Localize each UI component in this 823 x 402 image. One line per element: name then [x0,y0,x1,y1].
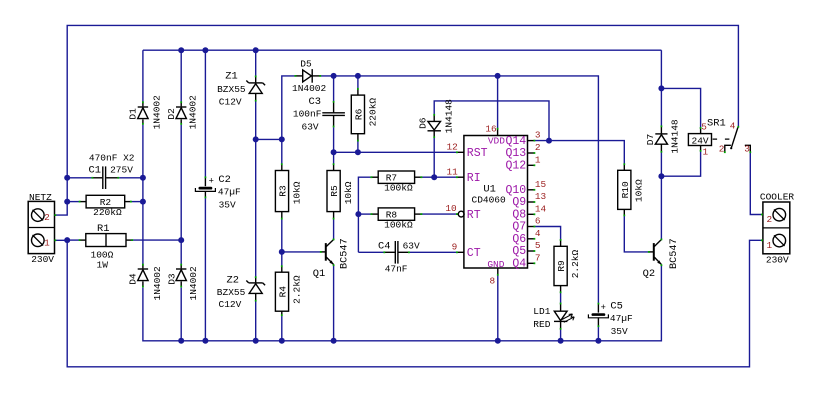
D2 name [166,108,177,120]
capacitor C3 100nF 63V [322,101,345,128]
svg-text:C4: C4 [378,240,390,252]
svg-text:Q12: Q12 [505,160,526,173]
svg-text:R1: R1 [97,223,109,235]
Z2 name [227,275,239,287]
svg-text:1N4002: 1N4002 [188,266,199,301]
svg-text:2: 2 [44,212,50,223]
wire relay coil pin 1 down to Q2 collector node [661,151,700,176]
D7 name [645,134,656,145]
wire +V bus (top rail y=50) from D1 branch to relay branch [143,49,662,51]
zener diode Z2 BZX55 C12V [246,276,265,301]
SR1 contact pin 2 [724,145,732,153]
svg-text:10kΩ: 10kΩ [291,181,302,204]
wire relay node down to D7 cathode [660,50,662,126]
svg-text:63V: 63V [403,240,420,251]
R1 power label 1W [97,260,109,271]
svg-text:5: 5 [535,240,541,251]
svg-text:BC547: BC547 [340,238,351,269]
capacitor C4 47nF 63V [383,241,409,264]
svg-text:Q7: Q7 [512,221,526,234]
wire D1 cathode branch down from top rail [142,50,144,101]
D4 name [128,273,139,285]
svg-text:D3: D3 [167,273,178,285]
svg-text:NETZ: NETZ [29,192,52,203]
svg-text:Q1: Q1 [313,268,325,280]
C4 name [378,240,390,252]
wire C2 positive up to top rail [204,50,206,176]
U1 pin 11 number [447,166,459,177]
resistor R2 220k bleeder [79,195,132,218]
svg-text:2.2kΩ: 2.2kΩ [291,275,302,304]
svg-text:35V: 35V [219,200,236,211]
svg-text:+: + [209,176,214,186]
connector X1 NETZ mains input [28,201,54,253]
resistor R9 2.2k [554,239,581,293]
U1 pin 12 number [447,141,458,152]
svg-text:Z1: Z1 [225,70,237,82]
svg-text:3: 3 [535,130,541,141]
U1 pin name RST [467,147,488,160]
capacitor C5 47uF 35V electrolytic [588,300,633,337]
wire C4 right to IC pin 9 (CT) [410,251,457,253]
svg-text:BZX55: BZX55 [217,84,246,95]
C4 value label 47nF [385,264,408,275]
wire VDD rail from D5 cathode right and down to C5 positive [321,76,599,303]
wire Q7 net from IC pin 6 right then down to R9 top [535,227,561,240]
svg-text:1N4002: 1N4002 [151,95,162,130]
wire D4 anode down to ground bus corner [143,266,662,341]
svg-text:220kΩ: 220kΩ [93,207,122,218]
D7 value label 1N4148 [670,119,681,154]
svg-text:RED: RED [533,319,550,330]
svg-text:1W: 1W [97,260,109,271]
wire R1 right side to D2/D3 node [133,239,182,241]
svg-text:5: 5 [701,121,707,132]
wire LD1 cathode down to ground bus [560,329,562,341]
transistor Q1 BC547 NPN [320,239,335,267]
R1 value label 100 ohm [91,250,114,261]
wire Z1 cathode up to top rail [255,50,257,76]
svg-text:14: 14 [535,203,547,214]
svg-text:100nF: 100nF [293,109,322,120]
Q2 name [643,268,655,280]
wire C1 left to mains L line [67,177,91,179]
U1 pin 9 number [452,241,458,252]
Z1 type label BZX55 [217,84,246,95]
svg-text:C2: C2 [218,174,230,186]
U1 pin name RI [467,172,481,185]
wire Q1 base node to base pin [282,251,322,253]
wire C4 left to node corner [358,251,383,253]
diode D7 1N4148 flyback [655,125,667,152]
svg-text:1: 1 [703,146,709,157]
svg-text:1N4002: 1N4002 [188,95,199,130]
wire Q2 collector down from node [660,176,662,239]
svg-text:Q5: Q5 [512,245,526,258]
svg-text:C12V: C12V [219,299,242,310]
SR1 pin 2 number [719,144,725,155]
svg-text:1N4148: 1N4148 [444,99,455,134]
wire Z1 anode down to 12V node [255,101,257,139]
svg-text:Q9: Q9 [512,196,526,209]
D3 value label 1N4002 [188,266,199,301]
NETZ label [29,192,52,203]
svg-text:CT: CT [467,247,481,260]
svg-text:LD1: LD1 [533,306,550,317]
COOLER pin marks [761,214,763,242]
diode D6 1N4148 [428,114,441,138]
C1 name [89,165,101,177]
svg-text:1: 1 [535,154,541,165]
Z2 voltage label C12V [219,299,242,310]
diode D5 1N4002 [295,69,322,83]
NETZ pin marks [54,214,56,241]
resistor R10 10k [618,163,645,216]
SR1 pin 1 number [703,146,709,157]
svg-text:470nF X2: 470nF X2 [89,152,135,163]
D1 name [127,108,138,120]
svg-text:11: 11 [447,166,459,177]
svg-text:230V: 230V [31,254,54,265]
capacitor C2 47uF 35V electrolytic [195,174,241,211]
svg-text:D4: D4 [128,273,139,285]
COOLER 230V value label [766,254,789,265]
wire D6 anode down to RI net (crosses RST net) [433,138,435,177]
diode D2 1N4002 [176,101,186,125]
Q2 type label BC547 [669,238,680,269]
wire R10 bottom to Q2 base [624,216,650,252]
NETZ pin 1 number [44,237,50,248]
svg-text:Q14: Q14 [505,135,526,148]
svg-text:100kΩ: 100kΩ [384,220,413,231]
svg-text:13: 13 [535,191,547,202]
svg-text:15: 15 [535,179,547,190]
Q1 name [313,268,325,280]
resistor R4 2.2k [275,265,302,316]
svg-text:10kΩ: 10kΩ [634,179,645,202]
svg-text:2: 2 [719,144,725,155]
svg-text:R6: R6 [354,108,365,120]
wire IC GND pin 8 down to ground bus [497,275,499,340]
svg-text:1N4148: 1N4148 [670,119,681,154]
capacitor C1 X2 suppression cap [92,166,120,189]
svg-text:D5: D5 [300,59,312,70]
SR1 pin 4 number [730,120,736,131]
U1 value label CD4060 [472,194,507,205]
SR1 pin 3 number [744,144,750,155]
wire 12V node horizontal to R3/D5 branch [256,138,282,140]
svg-text:D6: D6 [418,117,429,129]
resistor R5 10k [327,163,354,219]
transistor Q2 BC547 NPN [648,239,662,267]
svg-text:Q13: Q13 [505,147,526,160]
SR1 switch arm from pin 4 [731,126,739,148]
wire mains L from NETZ pin 2 up left edge, along top to relay pin 4 [56,25,738,215]
svg-text:Q8: Q8 [512,209,526,222]
svg-text:16: 16 [485,123,497,134]
wire R1 left side to NETZ pin 1 node [67,239,79,241]
svg-text:1N4002: 1N4002 [152,266,163,301]
svg-text:220kΩ: 220kΩ [367,98,378,127]
svg-text:C12V: C12V [219,97,242,108]
U1 name [483,184,495,196]
Z2 type label BZX55 [217,287,246,298]
wire C3 top to VDD rail [333,76,335,101]
svg-text:COOLER: COOLER [760,191,795,202]
wire D6 cathode up and right to Q14 net [434,101,549,141]
wire C2 negative down to ground bus [204,198,206,341]
svg-text:10kΩ: 10kΩ [343,181,354,204]
C4 voltage label 63V [403,240,420,251]
wire R5 top to RST net [333,152,335,163]
wire C3 bottom to RST net [333,127,335,152]
svg-text:1: 1 [44,237,50,248]
svg-text:Q6: Q6 [512,233,526,246]
Z1 name [225,70,237,82]
svg-text:R9: R9 [556,260,567,272]
svg-text:47µF: 47µF [218,187,241,198]
wire Z2 anode down to ground bus [255,301,257,341]
wire R2 right to AC node [131,201,143,203]
svg-text:1: 1 [767,240,773,251]
wire R5 bottom to Q1 collector [333,219,335,239]
diode D4 1N4002 [138,264,148,288]
op-amp U1 CD4060 counter IC body [456,128,535,276]
SR1 pin 5 number [701,121,707,132]
connector X2 COOLER output [763,202,790,254]
svg-text:2.2kΩ: 2.2kΩ [570,249,581,278]
wire D3 anode down to ground bus [180,288,182,341]
LD1 name [533,306,550,317]
svg-text:CD4060: CD4060 [472,194,507,205]
wire R6 bottom to RST net [357,141,359,152]
svg-text:63V: 63V [302,121,319,132]
D2 value label 1N4002 [188,95,199,130]
NETZ 230V value label [31,254,54,265]
wire R4 top to Q1 base node [281,252,283,266]
Z1 voltage label C12V [219,97,242,108]
D3 name [167,273,178,285]
resistor R1 100 ohm 1W [79,234,133,247]
Q1 type label BC547 [340,238,351,269]
svg-text:100kΩ: 100kΩ [384,183,413,194]
wire Q14 net from IC pin 3 right then down to R10 top [535,141,624,164]
svg-text:2: 2 [535,142,541,153]
NETZ pin 2 number [44,212,50,223]
svg-text:4: 4 [535,228,541,239]
svg-text:Q2: Q2 [643,268,655,280]
svg-text:VDD: VDD [488,136,505,147]
wire 12V node up and right to D5 anode [282,76,295,139]
diode D3 1N4002 [176,264,186,288]
zener diode Z1 BZX55 C12V [246,76,265,102]
C1 value label 470nF X2 [89,152,135,163]
U1 pin 10 number [445,203,457,214]
C1 voltage label 275V [110,165,133,176]
svg-text:GND: GND [487,259,504,270]
wire R4 bottom to ground bus [281,316,283,341]
diode D1 1N4002 [138,101,148,125]
svg-text:8: 8 [490,275,496,286]
U1 pin 8 number [490,275,496,286]
svg-text:10: 10 [445,203,457,214]
R1 name [97,223,109,235]
D4 value label 1N4002 [152,266,163,301]
wire Q1 emitter down to ground bus [333,266,335,341]
D6 name [418,117,429,129]
svg-text:+: + [601,303,606,313]
svg-text:RI: RI [467,172,481,185]
wire relay coil pin 5 from +V node [661,88,700,127]
resistor R7 100k [371,171,423,194]
svg-text:12: 12 [447,141,458,152]
U1 pin name VDD [488,136,505,147]
relay SR1 coil 24V [688,127,711,152]
D1 value label 1N4002 [151,95,162,130]
svg-text:BC547: BC547 [669,238,680,269]
U1 pin 16 number [485,123,497,134]
wire R3 top to 12V node [281,139,283,163]
svg-text:Z2: Z2 [227,275,239,287]
svg-text:R3: R3 [278,185,289,197]
svg-text:1N4002: 1N4002 [292,83,327,94]
COOLER label [760,191,795,202]
svg-text:D7: D7 [645,134,656,145]
C3 value label 100nF [293,109,322,120]
svg-text:SR1: SR1 [707,117,726,129]
svg-text:47nF: 47nF [385,264,408,275]
wire R8 right to IC pin 10 bubble [422,213,457,215]
wire IC VDD pin 16 up to VDD rail [497,76,499,128]
svg-text:BZX55: BZX55 [217,287,246,298]
C3 name [309,96,321,108]
wire R6 top to VDD rail [357,76,359,88]
svg-text:275V: 275V [110,165,133,176]
resistor R6 220k [351,88,378,142]
D5 name [300,59,312,70]
svg-text:R10: R10 [620,181,631,198]
wire Z2 cathode up to 12V node [255,139,257,276]
wire D2 anode to R1 junction to D3 cathode [180,125,182,264]
D6 value label 1N4148 [444,99,455,134]
wire R7 left down to R8/C4 node [358,177,370,252]
svg-text:C3: C3 [309,96,321,108]
wire switched mains from relay pin 3 down to COOLER pin 2 [750,153,761,215]
SR1 contact pin 3 [745,145,751,153]
SR1 coil value label 24V [692,135,709,146]
resistor R3 10k [275,163,302,219]
wire mains N from NETZ pin 1 along bottom edge and right edge to COOLER pin 1 [56,240,761,366]
svg-text:230V: 230V [766,254,789,265]
U1 pin name RT [467,209,481,222]
svg-text:7: 7 [535,252,541,263]
svg-text:6: 6 [535,216,541,227]
wire RI net from R7 right to IC pin 11 [422,176,457,178]
wire R9 bottom to LD1 anode [560,293,562,303]
svg-text:R5: R5 [329,185,340,197]
wire D2 cathode branch down from top rail [180,50,182,101]
SR1 actuation dashed link [713,138,731,140]
U1 output pin numbers [535,130,547,264]
U1 pin name GND [487,259,504,270]
wire D7 anode down to Q2 collector node [660,152,662,176]
svg-text:RT: RT [467,209,481,222]
wire R2 left to mains L line [67,201,79,203]
svg-text:Q4: Q4 [512,258,526,271]
U1 output pin names Q14..Q4 [505,135,526,271]
svg-text:D2: D2 [166,108,177,120]
wire R3 bottom to Q1 base node [281,219,283,252]
svg-text:Q10: Q10 [505,184,526,197]
svg-text:24V: 24V [692,135,709,146]
svg-text:2: 2 [767,214,773,225]
SR1 name [707,117,726,129]
resistor R8 100k [371,208,423,231]
svg-text:RST: RST [467,147,488,160]
LD1 value label RED [533,319,550,330]
svg-text:3: 3 [744,144,750,155]
COOLER pin 2 number [767,214,773,225]
C3 voltage label 63V [302,121,319,132]
COOLER pin 1 number [767,240,773,251]
U1 pin name CT [467,247,481,260]
wire R8 left to node [358,213,370,215]
svg-text:D1: D1 [127,108,138,120]
wire AC node: D1 anode down through C1/R2 junctions to D4 cathode [142,125,144,264]
wire C1 right to AC node [119,177,143,179]
svg-text:35V: 35V [611,326,628,337]
wire junction dots [64,47,664,344]
svg-text:C1: C1 [89,165,101,177]
svg-text:47µF: 47µF [610,313,633,324]
wire RST net horizontal to IC pin 12 [334,151,457,153]
svg-text:4: 4 [730,120,736,131]
svg-text:R4: R4 [278,286,289,298]
svg-text:9: 9 [452,241,458,252]
svg-text:C5: C5 [610,300,622,312]
D5 value label 1N4002 [292,83,327,94]
wire C5 negative down to ground bus [597,327,599,341]
LED LD1 red indicator [554,303,574,330]
